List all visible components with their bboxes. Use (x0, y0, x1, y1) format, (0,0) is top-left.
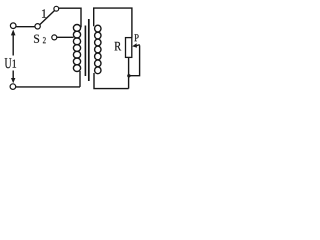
potentiometer P wiper arrowhead (132, 43, 137, 48)
label 2 (switch contact) (43, 37, 46, 43)
wire secondary bottom (94, 73, 129, 89)
transformer core line left (84, 26, 86, 77)
wire bottom left (16, 86, 80, 88)
wire contact1 to primary top (59, 8, 81, 27)
switch S pole (35, 24, 40, 29)
wire contact2 tap to primary coil (57, 36, 74, 38)
junction dot (127, 74, 130, 77)
label P (potentiometer) (134, 34, 138, 41)
voltage arrow U1 head up (11, 30, 16, 36)
wire resistor bottom lead (128, 57, 130, 88)
label S (switch) (34, 35, 39, 43)
switch contact 1 (54, 6, 59, 11)
node terminal top-left (10, 23, 16, 29)
voltage arrow U1 head down (11, 78, 15, 83)
label 1 (switch contact) (42, 9, 46, 17)
label R (resistor) (115, 42, 122, 51)
wire secondary top to resistor (94, 8, 132, 37)
transformer primary winding T1 (73, 25, 80, 32)
switch contact 2 (52, 35, 57, 40)
transformer core line right (88, 19, 90, 81)
wire wiper down and to junction (129, 45, 140, 75)
potentiometer P wiper shaft (136, 45, 140, 46)
label U1 - subscript 1 (13, 60, 16, 68)
voltage arrow U1 up (12, 35, 14, 56)
wire primary bottom lead (79, 71, 81, 87)
voltage arrow U1 down shaft (12, 71, 14, 80)
wire terminal to switch pole (16, 26, 35, 28)
transformer secondary winding (95, 25, 101, 32)
label U1 - U (5, 58, 12, 68)
node terminal bottom-left (10, 84, 16, 90)
resistor R body (126, 38, 132, 58)
switch S arm (40, 10, 55, 24)
